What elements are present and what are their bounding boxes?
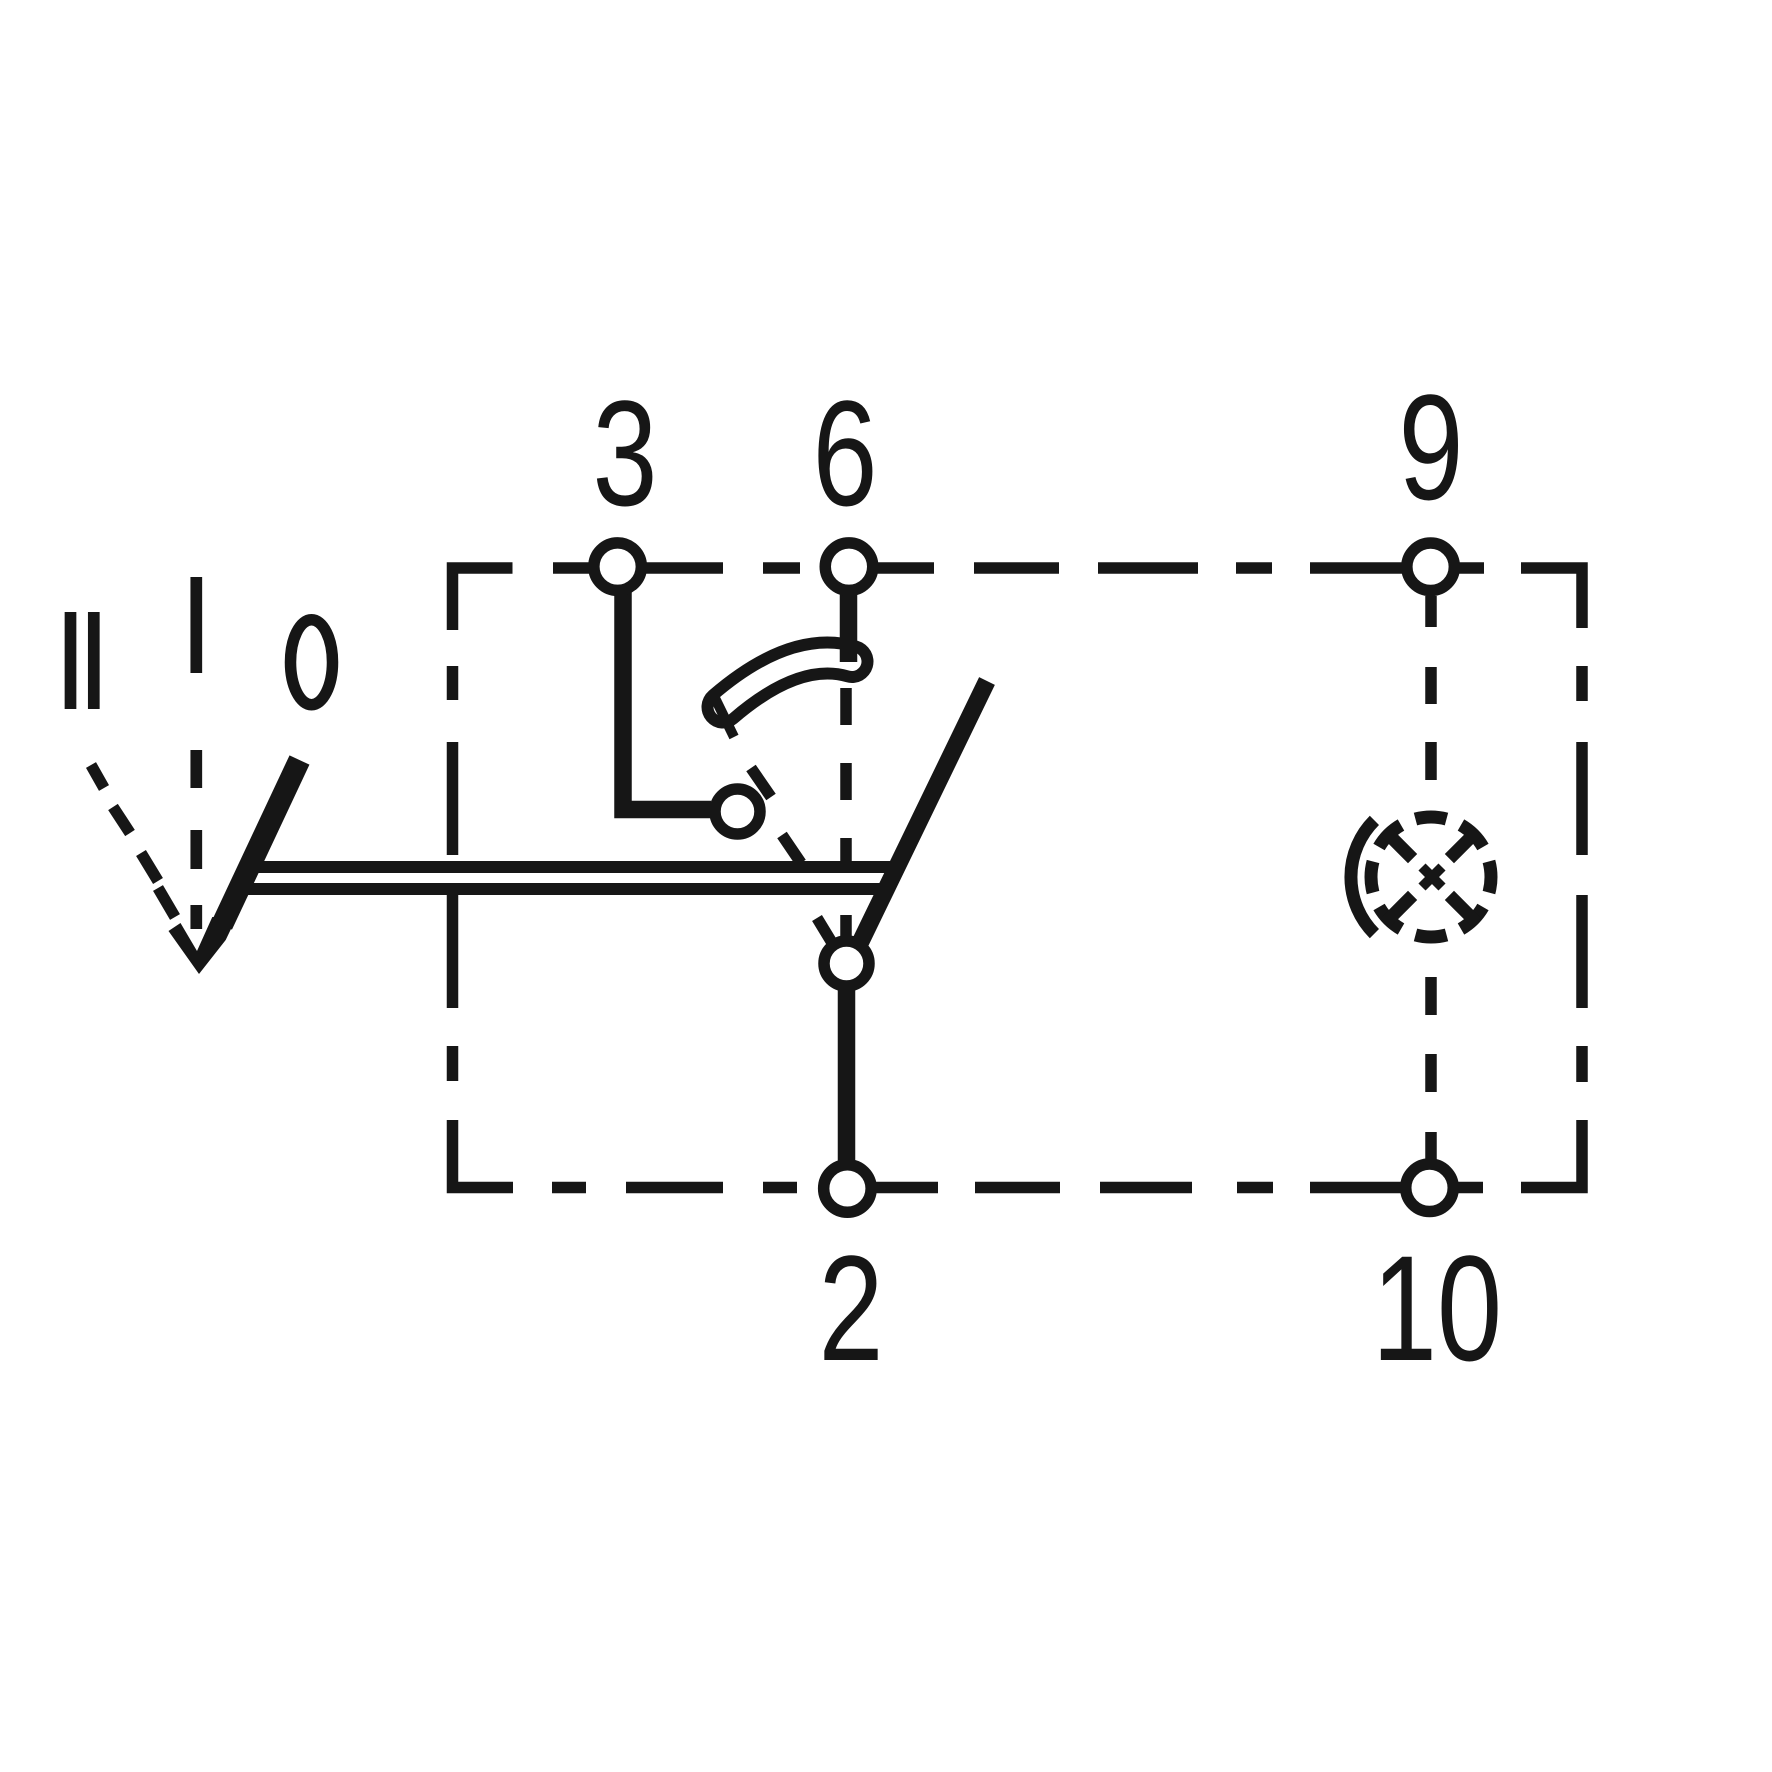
wire: housing top edge dash e [1236, 562, 1272, 574]
wire: top edge solid stub left of terminal 9 [1310, 562, 1403, 574]
wire: dashed centre line from bridge down to contact 2 [840, 688, 852, 938]
terminal 10 [1406, 1164, 1454, 1212]
wire: housing bottom edge dash c [763, 1182, 797, 1194]
actuator arrowhead [169, 917, 237, 974]
label: terminal 3 [592, 369, 657, 537]
wire: housing bottom edge dash f [1237, 1182, 1273, 1194]
svg-text:6: 6 [812, 369, 877, 537]
wire: housing top edge dash c [974, 562, 1059, 574]
wire: dashed lever ghost position II [751, 768, 834, 946]
svg-text:10: 10 [1372, 1224, 1502, 1392]
wire: housing top edge dash d [1098, 562, 1198, 574]
switch lever (movable contact arm) [860, 681, 987, 943]
label: terminal 9 [1398, 363, 1463, 531]
svg-text:3: 3 [592, 369, 657, 537]
label: terminal 2 [818, 1224, 883, 1392]
wire: conductor from terminal 6 to contact bridge [840, 591, 858, 662]
wire: housing top edge left corner [453, 568, 513, 630]
terminal 3 [594, 543, 642, 591]
terminal 2 [824, 1165, 872, 1213]
wire: dashed position II direction line [91, 765, 175, 917]
wire: top edge solid stub right of terminal 9 [1458, 562, 1484, 574]
wire: housing top edge dash a [553, 562, 589, 574]
wire: bottom edge solid stub right of terminal 2 [876, 1182, 938, 1194]
wire: housing right edge dashes [1576, 666, 1588, 1124]
wire: housing bottom edge dash e [1100, 1182, 1192, 1194]
svg-text:2: 2 [818, 1224, 883, 1392]
wire: housing top edge dash b [763, 562, 800, 574]
contact bridge tip tick [714, 696, 734, 737]
terminal 6 [825, 543, 873, 591]
svg-text:9: 9 [1398, 363, 1463, 531]
label: position II [71, 612, 94, 709]
wire: top edge solid stub right of terminal 3 [645, 562, 723, 574]
wire: housing bottom edge dash a [552, 1182, 586, 1194]
node: moving contact on terminal 2 [824, 941, 869, 986]
wire: housing top edge right corner [1521, 568, 1582, 628]
node: fixed contact of pole 3 [715, 789, 760, 834]
lamp L1 (illumination, dashed) [1371, 817, 1491, 937]
actuator rod (mechanical link, double line) [235, 867, 897, 889]
lamp reflector arc [1351, 820, 1374, 933]
wire: dashed lamp return to terminal 10 [1425, 977, 1437, 1161]
wire: bottom edge solid stub right of terminal 10 [1458, 1182, 1483, 1194]
terminal 9 [1407, 543, 1455, 591]
position I tick mark [190, 577, 202, 673]
wire: housing bottom edge left corner [453, 1125, 514, 1188]
wire: conductor from moving contact down to terminal 2 [838, 988, 856, 1162]
wire: housing bottom edge dash d [975, 1182, 1060, 1194]
wire: housing left edge dashes [447, 666, 459, 1125]
wire: top edge solid stub right of terminal 6 [877, 562, 934, 574]
wire: conductor from terminal 3 to fixed contact [623, 591, 711, 810]
wire: housing bottom edge right corner [1521, 1124, 1582, 1188]
label: position 0 [291, 620, 333, 705]
wire: dashed position I centre line [190, 750, 202, 929]
contact bridge (curved shoe) on terminal 6 [723, 658, 852, 707]
wire: housing bottom edge dash b [626, 1182, 723, 1194]
wire: bottom edge solid stub left of terminal 10 [1310, 1182, 1401, 1194]
label: terminal 6 [812, 369, 877, 537]
label: terminal 10 [1372, 1224, 1502, 1392]
wire: dashed lamp feed from terminal 9 [1425, 596, 1437, 780]
actuator lever in position 0 [222, 760, 300, 925]
